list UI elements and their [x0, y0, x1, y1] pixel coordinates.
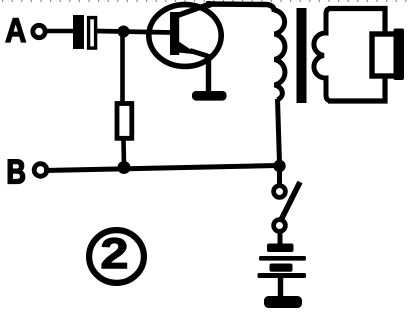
- resistor: [117, 104, 132, 139]
- wire earphone bottom to secondary bottom: [328, 78, 385, 101]
- earphone: [372, 29, 404, 81]
- wire resistor to B line: [121, 140, 126, 167]
- junction dot (A line / resistor): [118, 26, 130, 38]
- capacitor: [73, 15, 96, 49]
- transformer secondary winding: [314, 9, 330, 101]
- wire collector top rail to transformer primary: [206, 4, 275, 12]
- junction dot (B line / resistor): [118, 161, 131, 174]
- junction dot (B line / battery branch): [273, 160, 285, 172]
- transistor: [149, 4, 221, 67]
- node B: [8, 160, 47, 183]
- wire battery to ground: [278, 278, 283, 297]
- junction dot (collector / top rail): [205, 1, 212, 8]
- ground (battery negative): [264, 296, 302, 308]
- wire A terminal to capacitor: [43, 29, 74, 34]
- wire capacitor to transistor base: [97, 31, 172, 33]
- ground (transistor emitter): [192, 91, 227, 101]
- transformer primary winding: [275, 10, 285, 100]
- wire transformer primary bottom to B junction: [278, 99, 280, 163]
- battery: [258, 244, 307, 279]
- wire B bus line: [44, 166, 277, 171]
- wire secondary top to earphone: [328, 9, 385, 33]
- wire junction down to resistor: [120, 32, 125, 103]
- transformer core: [297, 8, 307, 103]
- switch: [274, 182, 300, 231]
- wire emitter down to ground: [206, 54, 211, 93]
- figure label 2 (circled): [89, 230, 144, 283]
- wire junction to switch: [277, 166, 282, 185]
- node A: [6, 18, 45, 42]
- wire switch to battery: [278, 232, 283, 246]
